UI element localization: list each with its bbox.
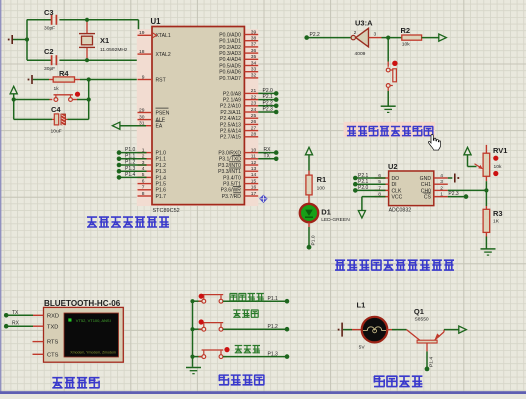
title key circuit: [219, 375, 264, 385]
svg-text:P3.4/T0: P3.4/T0: [223, 175, 241, 181]
svg-text:15: 15: [251, 178, 257, 184]
U2 pin 7 CLK: [375, 189, 389, 191]
wire U2 VCC: [362, 196, 386, 198]
wire U2 CH0 to divider: [448, 189, 487, 191]
push button 2: [203, 323, 205, 327]
U1 pin 28 P2.7/A15: [244, 136, 258, 138]
svg-text:6: 6: [142, 178, 145, 184]
overline P3.3/INT1: [229, 167, 241, 169]
svg-text:XTAL1: XTAL1: [156, 33, 171, 39]
wire net P2.3: [258, 111, 276, 113]
wire net P2.1 U2: [355, 183, 385, 185]
U2 pin 6 DO: [375, 177, 389, 179]
svg-text:RX: RX: [12, 321, 20, 327]
bluetooth pin CTS: [33, 353, 44, 355]
power arrow VCC reset: [10, 86, 17, 94]
node P2.2 net: [304, 35, 309, 40]
svg-text:L1: L1: [357, 301, 366, 310]
svg-text:BLUETOOTH-HC-06: BLUETOOTH-HC-06: [44, 299, 121, 308]
svg-text:30pF: 30pF: [44, 26, 55, 32]
U1 pin 39 P0.0/AD0: [244, 34, 258, 36]
svg-text:P2.1: P2.1: [358, 179, 369, 185]
svg-text:P3.7/RD: P3.7/RD: [222, 194, 242, 200]
svg-text:P1.6: P1.6: [156, 188, 167, 194]
svg-text:CH1: CH1: [421, 182, 431, 188]
overline P3.7/RD: [233, 192, 241, 194]
svg-text:32: 32: [251, 73, 257, 79]
wire X1 to XTAL2: [87, 59, 139, 61]
title MCU minimal system: [87, 217, 169, 227]
svg-text:P2.3/A11: P2.3/A11: [220, 110, 241, 116]
wire net P2.0 U2: [355, 189, 385, 191]
wire lamp to Q1: [387, 329, 392, 331]
svg-text:P2.2: P2.2: [263, 100, 274, 106]
svg-text:P0.3/AD3: P0.3/AD3: [219, 51, 241, 57]
svg-text:P0.2/AD2: P0.2/AD2: [219, 45, 241, 51]
svg-text:7: 7: [142, 185, 145, 191]
U2 pin 5 DI: [375, 183, 389, 185]
node crystal left: [25, 37, 29, 41]
svg-text:RV1: RV1: [493, 146, 507, 155]
svg-text:1k: 1k: [54, 86, 60, 92]
bluetooth pin RXD: [33, 314, 44, 316]
svg-text:18: 18: [139, 49, 145, 55]
svg-text:37: 37: [251, 42, 257, 48]
output arrow lamp: [459, 326, 467, 333]
bluetooth pin TXD: [33, 325, 44, 327]
svg-text:U3:A: U3:A: [355, 19, 373, 28]
svg-text:10k: 10k: [402, 41, 410, 47]
svg-text:29: 29: [139, 107, 145, 113]
wire RV1 to R3: [485, 176, 487, 181]
svg-text:P1.2: P1.2: [125, 160, 136, 166]
wire net TX: [6, 314, 33, 316]
lamp L1: [352, 329, 362, 331]
node P1.4 terminal: [425, 367, 430, 372]
wire U2 GND: [448, 177, 453, 179]
node button left: [12, 97, 16, 101]
svg-text:13: 13: [251, 166, 257, 172]
overline P3.6/WR: [233, 186, 241, 188]
window bottom edge: [0, 391, 526, 394]
svg-text:P2.0: P2.0: [358, 185, 369, 191]
power arrow R1: [305, 147, 312, 155]
U1 pin 36 P0.3/AD3: [244, 52, 258, 54]
wire net P2.1 U2: [355, 177, 385, 179]
U1 pin 33 P0.6/AD6: [244, 71, 258, 73]
wire R4 to RST: [80, 79, 138, 81]
svg-text:P1.7: P1.7: [156, 194, 167, 200]
U1 pin 9 RST: [138, 79, 153, 81]
title bluetooth module: [52, 378, 99, 388]
wire D1 down: [308, 222, 310, 227]
wire R3 to ground: [485, 237, 487, 249]
U1 pin 31 EA: [138, 125, 153, 127]
push button 3: [203, 351, 205, 355]
svg-text:EA: EA: [156, 124, 163, 130]
U1 pin 15 P3.5/T1: [244, 183, 258, 185]
U1 pin 12 P3.2/INT0: [244, 164, 258, 166]
RV1 wiper arrow: [475, 164, 482, 169]
node X1 bottom: [85, 58, 89, 62]
U1 pin 4 P1.3: [138, 170, 153, 172]
svg-text:VT52, VT100, ANSI: VT52, VT100, ANSI: [76, 318, 111, 323]
U2 pin 8 VCC: [375, 196, 389, 198]
ground IR: [381, 105, 396, 107]
svg-text:39: 39: [251, 29, 257, 35]
svg-text:8: 8: [142, 191, 145, 197]
wire net P1.1: [119, 158, 147, 160]
highlight IR title: [344, 122, 435, 137]
svg-text:2: 2: [354, 30, 357, 36]
svg-text:30: 30: [139, 114, 145, 120]
power terminal lamp: [341, 323, 343, 337]
bluetooth LED: [68, 318, 71, 321]
power arrow down U2: [358, 211, 365, 219]
capacitor C2: [27, 59, 52, 61]
button IR red dot: [392, 61, 397, 66]
U1 pin 16 P3.6/WR: [244, 189, 258, 191]
svg-text:27: 27: [251, 125, 257, 131]
svg-text:P1.4: P1.4: [125, 172, 136, 178]
svg-text:P1.4: P1.4: [429, 357, 435, 367]
wire button 2 to net P1.2: [223, 328, 287, 330]
wire net P1.0: [119, 152, 147, 154]
svg-text:17: 17: [251, 191, 257, 197]
U1 selection highlight: [137, 29, 258, 206]
node divider: [484, 188, 488, 192]
svg-text:P0.1/AD1: P0.1/AD1: [219, 39, 241, 45]
svg-text:S8550: S8550: [415, 317, 429, 323]
svg-text:12: 12: [251, 160, 257, 166]
svg-text:P1.0: P1.0: [311, 235, 317, 245]
svg-text:VCC: VCC: [392, 195, 403, 201]
svg-text:P2.7/A15: P2.7/A15: [220, 135, 241, 141]
svg-text:C3: C3: [44, 8, 54, 17]
svg-text:CS: CS: [424, 195, 432, 201]
button reset red dot: [75, 92, 80, 97]
svg-text:C4: C4: [51, 105, 61, 114]
svg-text:R2: R2: [401, 26, 411, 35]
wire left rail crystal: [26, 20, 28, 61]
U1 pin 2 P1.1: [138, 158, 153, 160]
svg-text:P2.0/A8: P2.0/A8: [223, 91, 241, 97]
output arrow terminal: [439, 34, 447, 41]
svg-text:P1.0: P1.0: [156, 151, 167, 157]
wire EA to arrow: [120, 125, 146, 127]
wire button 3 to net P1.3: [223, 356, 287, 358]
label brightness minus: [233, 310, 258, 317]
node inverter out: [386, 36, 390, 40]
power terminal R4 left: [33, 79, 49, 81]
U2 pin 3 CH1: [434, 183, 448, 185]
svg-text:P0.5/AD5: P0.5/AD5: [219, 63, 241, 69]
svg-text:P2.3: P2.3: [263, 107, 274, 113]
bluetooth screen: [64, 313, 119, 357]
resistor R3: [485, 206, 487, 209]
svg-text:PSEN: PSEN: [156, 110, 170, 116]
svg-text:P1.1: P1.1: [268, 296, 279, 302]
U1 pin 30 ALE: [138, 119, 153, 121]
svg-text:R4: R4: [59, 69, 69, 78]
wire R2 to output arrow: [422, 37, 439, 39]
wire inverter out down: [387, 38, 389, 62]
U1 pin 18 XTAL2: [138, 53, 153, 55]
wire Q1 base down: [426, 343, 428, 351]
resistor R2: [402, 35, 422, 40]
svg-text:22: 22: [251, 94, 257, 100]
svg-text:STC89C52: STC89C52: [153, 208, 180, 214]
svg-text:P1.5: P1.5: [156, 182, 167, 188]
svg-text:P3.3/INT1: P3.3/INT1: [218, 169, 241, 175]
wire net P1.4: [119, 176, 147, 178]
svg-text:10uF: 10uF: [51, 129, 62, 135]
svg-text:ALE: ALE: [156, 118, 166, 124]
svg-text:25: 25: [251, 113, 257, 119]
svg-text:RST: RST: [156, 77, 166, 83]
wire inverter out: [382, 37, 402, 39]
bluetooth module body: [44, 307, 124, 362]
wire net P2.0: [258, 92, 276, 94]
svg-text:DO: DO: [392, 176, 400, 182]
U1 pin 37 P0.2/AD2: [244, 46, 258, 48]
U1 pin 13 P3.3/INT1: [244, 170, 258, 172]
svg-text:9: 9: [142, 74, 145, 80]
wire Q1 collector to arrow: [444, 329, 459, 331]
svg-text:P2.1: P2.1: [358, 173, 369, 179]
svg-text:X1: X1: [100, 36, 109, 45]
wire RST junction down: [88, 80, 90, 100]
svg-text:C2: C2: [44, 47, 54, 56]
svg-text:P1.3: P1.3: [268, 351, 279, 357]
svg-text:2: 2: [440, 185, 443, 191]
node rail button 2: [190, 327, 194, 331]
U2 pin 2 CH0: [434, 189, 448, 191]
U1 pin 1 P1.0: [138, 152, 153, 154]
svg-text:LED-GREEN: LED-GREEN: [321, 217, 350, 223]
svg-text:R1: R1: [317, 175, 327, 184]
wire X1 to XTAL1: [87, 19, 139, 21]
U1 pin 24 P2.3/A11: [244, 111, 258, 113]
title IR detection circuit: [347, 126, 433, 135]
svg-text:RXD: RXD: [47, 313, 59, 319]
svg-text:30pF: 30pF: [44, 66, 55, 72]
svg-text:36: 36: [251, 48, 257, 54]
label mode switch: [230, 293, 264, 300]
svg-text:TXD: TXD: [47, 324, 58, 330]
cursor origin marker: [259, 195, 267, 203]
svg-text:U2: U2: [388, 162, 398, 171]
mouse hand cursor: [428, 134, 440, 150]
svg-text:100: 100: [317, 186, 325, 192]
svg-text:1K: 1K: [493, 219, 500, 225]
svg-text:35: 35: [251, 54, 257, 60]
U2 pin 1 CS: [434, 196, 448, 198]
ground buttons: [186, 367, 201, 369]
U1 pin 22 P2.1/A9: [244, 99, 258, 101]
U1 pin 17 P3.7/RD: [244, 195, 258, 197]
svg-text:P2.1: P2.1: [263, 94, 274, 100]
svg-text:DI: DI: [392, 182, 397, 188]
U1 pin 21 P2.0/A8: [244, 92, 258, 94]
U1 pin 7 P1.6: [138, 189, 153, 191]
svg-text:3: 3: [374, 32, 377, 38]
svg-text:P1.2: P1.2: [268, 324, 279, 330]
node rail button 3: [190, 355, 194, 359]
svg-text:38: 38: [251, 36, 257, 42]
title lighting circuit: [374, 376, 422, 387]
U1 pin 10 P3.0/RXD: [244, 152, 258, 154]
button IR: [387, 62, 389, 67]
U1 pin 5 P1.4: [138, 176, 153, 178]
svg-text:4: 4: [440, 173, 443, 179]
button reset: [50, 99, 53, 101]
svg-text:16: 16: [251, 185, 257, 191]
svg-text:P0.4/AD4: P0.4/AD4: [219, 57, 241, 63]
svg-text:19: 19: [139, 30, 145, 36]
svg-text:3: 3: [440, 179, 443, 185]
U1 pin 19 XTAL1: [138, 34, 153, 36]
svg-text:1: 1: [440, 192, 443, 198]
U2 pin 4 GND: [434, 177, 448, 179]
svg-text:TX: TX: [12, 310, 19, 316]
svg-text:24: 24: [251, 107, 257, 113]
svg-text:P1.1: P1.1: [125, 153, 136, 159]
U1 pin 26 P2.5/A13: [244, 123, 258, 125]
svg-text:Xmodem, Ymodem, Zmodem: Xmodem, Ymodem, Zmodem: [70, 350, 116, 354]
buttons common rail: [192, 301, 194, 367]
svg-text:CH0: CH0: [421, 188, 431, 194]
U1 pin 38 P0.1/AD1: [244, 40, 258, 42]
svg-text:R3: R3: [493, 209, 503, 218]
resistor R4: [49, 79, 53, 81]
U1 pin 8 P1.7: [138, 195, 153, 197]
svg-text:28: 28: [251, 132, 257, 138]
U1 pin 27 P2.6/A14: [244, 130, 258, 132]
wire right rail to C4: [88, 100, 90, 120]
svg-text:U1: U1: [151, 17, 162, 26]
resistor R1: [308, 171, 310, 176]
U1 pin 14 P3.4/T0: [244, 176, 258, 178]
node rail button 1: [190, 299, 194, 303]
svg-text:P1.3: P1.3: [156, 169, 167, 175]
node X1 top: [85, 18, 89, 22]
wire net P1.3: [119, 170, 147, 172]
power terminal U2 GND: [454, 174, 456, 183]
svg-text:14: 14: [251, 172, 257, 178]
svg-text:GND: GND: [420, 176, 432, 182]
overline CS: [424, 192, 432, 194]
label brightness plus: [235, 345, 260, 352]
svg-text:P2.3: P2.3: [448, 191, 459, 197]
svg-text:CLK: CLK: [392, 188, 403, 194]
wire button 1 to net P1.1: [223, 300, 287, 302]
wire P2.2 to inverter: [307, 37, 352, 39]
chip U1 body: [152, 27, 244, 205]
wire net RX: [6, 325, 33, 327]
svg-text:11.0592MHz: 11.0592MHz: [100, 47, 128, 53]
svg-text:P2.4/A12: P2.4/A12: [220, 116, 241, 122]
capacitor C3: [27, 19, 52, 21]
wire button row right: [77, 99, 89, 101]
U1 pin 6 P1.5: [138, 183, 153, 185]
svg-text:P0.0/AD0: P0.0/AD0: [219, 32, 241, 38]
svg-text:D1: D1: [321, 208, 331, 217]
U1 pin 35 P0.4/AD4: [244, 58, 258, 60]
svg-text:P2.0: P2.0: [263, 88, 274, 94]
U1 pin 11 P3.1/TXD: [244, 158, 258, 160]
svg-text:P1.3: P1.3: [125, 166, 136, 172]
svg-text:P0.7/AD7: P0.7/AD7: [219, 76, 241, 82]
svg-text:5V: 5V: [359, 345, 366, 351]
svg-text:RTS: RTS: [47, 340, 58, 346]
svg-text:4009: 4009: [355, 51, 366, 57]
svg-text:P2.1/A9: P2.1/A9: [223, 98, 241, 104]
U1 pin 32 P0.7/AD7: [244, 77, 258, 79]
svg-text:P1.4: P1.4: [156, 175, 167, 181]
svg-text:23: 23: [251, 101, 257, 107]
pot RV1: [485, 145, 487, 153]
crystal X1: [86, 20, 88, 34]
svg-text:34: 34: [251, 60, 257, 66]
LED D1: [308, 200, 310, 204]
svg-text:P1.0: P1.0: [125, 147, 136, 153]
push button 1: [203, 295, 205, 299]
wire net TX: [258, 158, 276, 160]
svg-text:P2.5/A13: P2.5/A13: [220, 122, 241, 128]
wire button to ground: [387, 87, 389, 106]
wire button row left: [14, 99, 50, 101]
svg-text:21: 21: [251, 88, 257, 94]
overline P3.1/TXD: [232, 155, 241, 157]
chip U2 body: [389, 171, 434, 206]
svg-text:P2.6/A14: P2.6/A14: [220, 129, 241, 135]
capacitor C4: [14, 118, 52, 120]
wire net P2.1: [258, 99, 276, 101]
svg-text:CTS: CTS: [47, 352, 59, 358]
svg-text:33: 33: [251, 67, 257, 73]
svg-text:10: 10: [251, 147, 257, 153]
window left edge: [0, 0, 1, 394]
svg-text:Q1: Q1: [414, 307, 424, 316]
svg-text:P2.2/A10: P2.2/A10: [220, 104, 241, 110]
node RST junction: [87, 77, 91, 81]
wire net P1.2: [119, 164, 147, 166]
power arrow RV1 wiper: [464, 147, 471, 155]
svg-text:10k: 10k: [494, 164, 502, 170]
overline P3.2/INT0: [229, 161, 241, 163]
U1 pin 29 PSEN: [138, 112, 153, 114]
svg-text:P1.1: P1.1: [156, 157, 167, 163]
svg-text:TX: TX: [264, 153, 271, 159]
U1 pin 34 P0.5/AD5: [244, 65, 258, 67]
wire rail to button 3: [193, 356, 202, 358]
wire net P2.2: [258, 105, 276, 107]
title ambient brightness circuit: [335, 260, 454, 270]
svg-text:P0.6/AD6: P0.6/AD6: [219, 70, 241, 76]
wire net RX: [258, 152, 276, 154]
svg-text:XTAL2: XTAL2: [156, 52, 171, 58]
U1 pin 23 P2.2/A10: [244, 105, 258, 107]
bluetooth pin RTS: [33, 341, 44, 343]
U1 pin 25 P2.4/A12: [244, 117, 258, 119]
svg-text:RX: RX: [264, 147, 272, 153]
U1 pin 3 P1.2: [138, 164, 153, 166]
power terminal crystal left: [13, 39, 27, 41]
svg-text:26: 26: [251, 119, 257, 125]
wire rail to button 2: [193, 328, 202, 330]
U1 XTAL1 clock arrow: [153, 33, 157, 38]
